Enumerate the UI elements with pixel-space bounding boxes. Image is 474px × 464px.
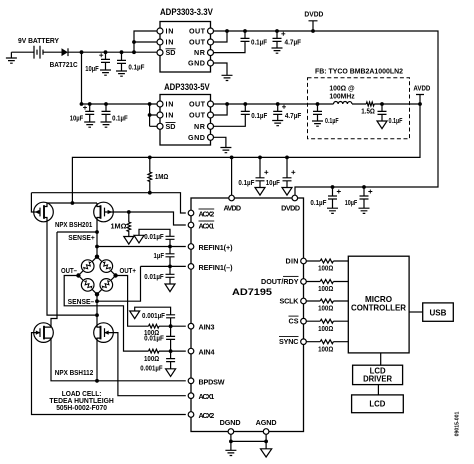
svg-text:0.1µF: 0.1µF [112, 113, 128, 122]
svg-text:ACX2: ACX2 [199, 411, 215, 420]
svg-text:AIN3: AIN3 [199, 323, 215, 332]
svg-text:IN: IN [166, 111, 174, 120]
svg-text:505H-0002-F070: 505H-0002-F070 [56, 403, 107, 412]
svg-text:0.1µF: 0.1µF [310, 198, 327, 207]
svg-text:10µF: 10µF [70, 113, 84, 122]
svg-text:NPX BSH112: NPX BSH112 [55, 368, 94, 377]
svg-text:BAT721C: BAT721C [50, 60, 78, 69]
svg-text:OUT: OUT [189, 111, 206, 120]
svg-text:SENSE–: SENSE– [68, 297, 95, 306]
svg-text:4.7µF: 4.7µF [285, 111, 302, 120]
svg-text:0.001µF: 0.001µF [140, 364, 163, 373]
svg-text:100Ω: 100Ω [318, 344, 333, 353]
svg-text:FB: TYCO BMB2A1000LN2: FB: TYCO BMB2A1000LN2 [315, 67, 403, 76]
svg-text:NR: NR [194, 122, 206, 131]
svg-text:BPDSW: BPDSW [199, 377, 225, 386]
svg-text:0.1µF: 0.1µF [325, 116, 339, 125]
svg-text:AD7195: AD7195 [232, 287, 272, 297]
svg-text:0.01µF: 0.01µF [144, 334, 164, 343]
svg-text:AIN4: AIN4 [199, 348, 215, 357]
svg-text:SD: SD [166, 48, 176, 57]
svg-text:ACX2: ACX2 [199, 210, 215, 219]
svg-text:NPX BSH201: NPX BSH201 [55, 220, 92, 229]
svg-text:GND: GND [188, 133, 205, 142]
svg-text:GND: GND [188, 59, 205, 68]
svg-text:1µF: 1µF [154, 251, 165, 260]
svg-text:1.5Ω: 1.5Ω [361, 107, 375, 116]
svg-text:0.1µF: 0.1µF [128, 63, 145, 72]
svg-text:0.1µF: 0.1µF [251, 111, 268, 120]
svg-text:IN: IN [166, 100, 174, 109]
svg-text:DGND: DGND [220, 418, 241, 427]
svg-text:CONTROLLER: CONTROLLER [351, 303, 406, 312]
svg-text:100Ω: 100Ω [318, 324, 333, 333]
svg-text:100Ω: 100Ω [318, 284, 333, 293]
svg-text:1MΩ: 1MΩ [111, 222, 127, 231]
svg-text:10µF: 10µF [266, 178, 281, 187]
svg-text:OUT: OUT [189, 27, 206, 36]
svg-text:0.001µF: 0.001µF [142, 311, 166, 320]
svg-text:DVDD: DVDD [281, 203, 300, 212]
svg-text:DVDD: DVDD [304, 10, 323, 19]
svg-text:DRIVER: DRIVER [363, 374, 392, 383]
svg-text:0.1µF: 0.1µF [389, 116, 403, 125]
svg-text:100Ω: 100Ω [144, 354, 159, 363]
svg-text:0.1µF: 0.1µF [251, 38, 268, 47]
svg-text:REFIN1(+): REFIN1(+) [199, 243, 234, 252]
svg-text:OUT: OUT [189, 100, 206, 109]
svg-text:DOUT/RDY: DOUT/RDY [261, 277, 299, 286]
svg-text:0.01µF: 0.01µF [144, 272, 164, 281]
svg-text:SCLK: SCLK [280, 297, 300, 306]
svg-text:1MΩ: 1MΩ [155, 172, 169, 181]
svg-text:CS: CS [289, 317, 299, 326]
svg-text:LCD: LCD [369, 399, 385, 408]
svg-text:09015-001: 09015-001 [455, 411, 461, 436]
svg-text:OUT: OUT [189, 38, 206, 47]
svg-text:IN: IN [166, 38, 174, 47]
svg-text:NR: NR [194, 48, 206, 57]
svg-text:IN: IN [166, 27, 174, 36]
svg-text:ADP3303-3.3V: ADP3303-3.3V [160, 7, 214, 17]
svg-text:100Ω: 100Ω [318, 264, 333, 273]
svg-text:AGND: AGND [256, 418, 277, 427]
svg-text:USB: USB [430, 308, 447, 317]
svg-text:0.1µF: 0.1µF [238, 178, 255, 187]
svg-text:10µF: 10µF [345, 198, 358, 207]
svg-text:100Ω: 100Ω [318, 304, 333, 313]
svg-text:OUT+: OUT+ [119, 266, 136, 275]
svg-text:10µF: 10µF [85, 64, 99, 73]
svg-text:9V BATTERY: 9V BATTERY [18, 36, 59, 45]
svg-text:SYNC: SYNC [279, 337, 299, 346]
svg-text:AVDD: AVDD [224, 203, 242, 212]
svg-text:REFIN1(–): REFIN1(–) [199, 263, 234, 272]
svg-text:OUT–: OUT– [61, 266, 77, 275]
svg-text:100MHz: 100MHz [329, 92, 355, 101]
svg-text:DIN: DIN [286, 257, 299, 266]
svg-text:ACX1: ACX1 [199, 222, 215, 231]
svg-text:SENSE+: SENSE+ [68, 233, 95, 242]
svg-text:ACX1: ACX1 [199, 392, 215, 401]
svg-text:4.7µF: 4.7µF [285, 38, 302, 47]
svg-text:ADP3303-5V: ADP3303-5V [164, 82, 210, 92]
svg-text:AVDD: AVDD [413, 84, 430, 93]
svg-text:SD: SD [166, 122, 176, 131]
svg-text:0.01µF: 0.01µF [144, 232, 164, 241]
